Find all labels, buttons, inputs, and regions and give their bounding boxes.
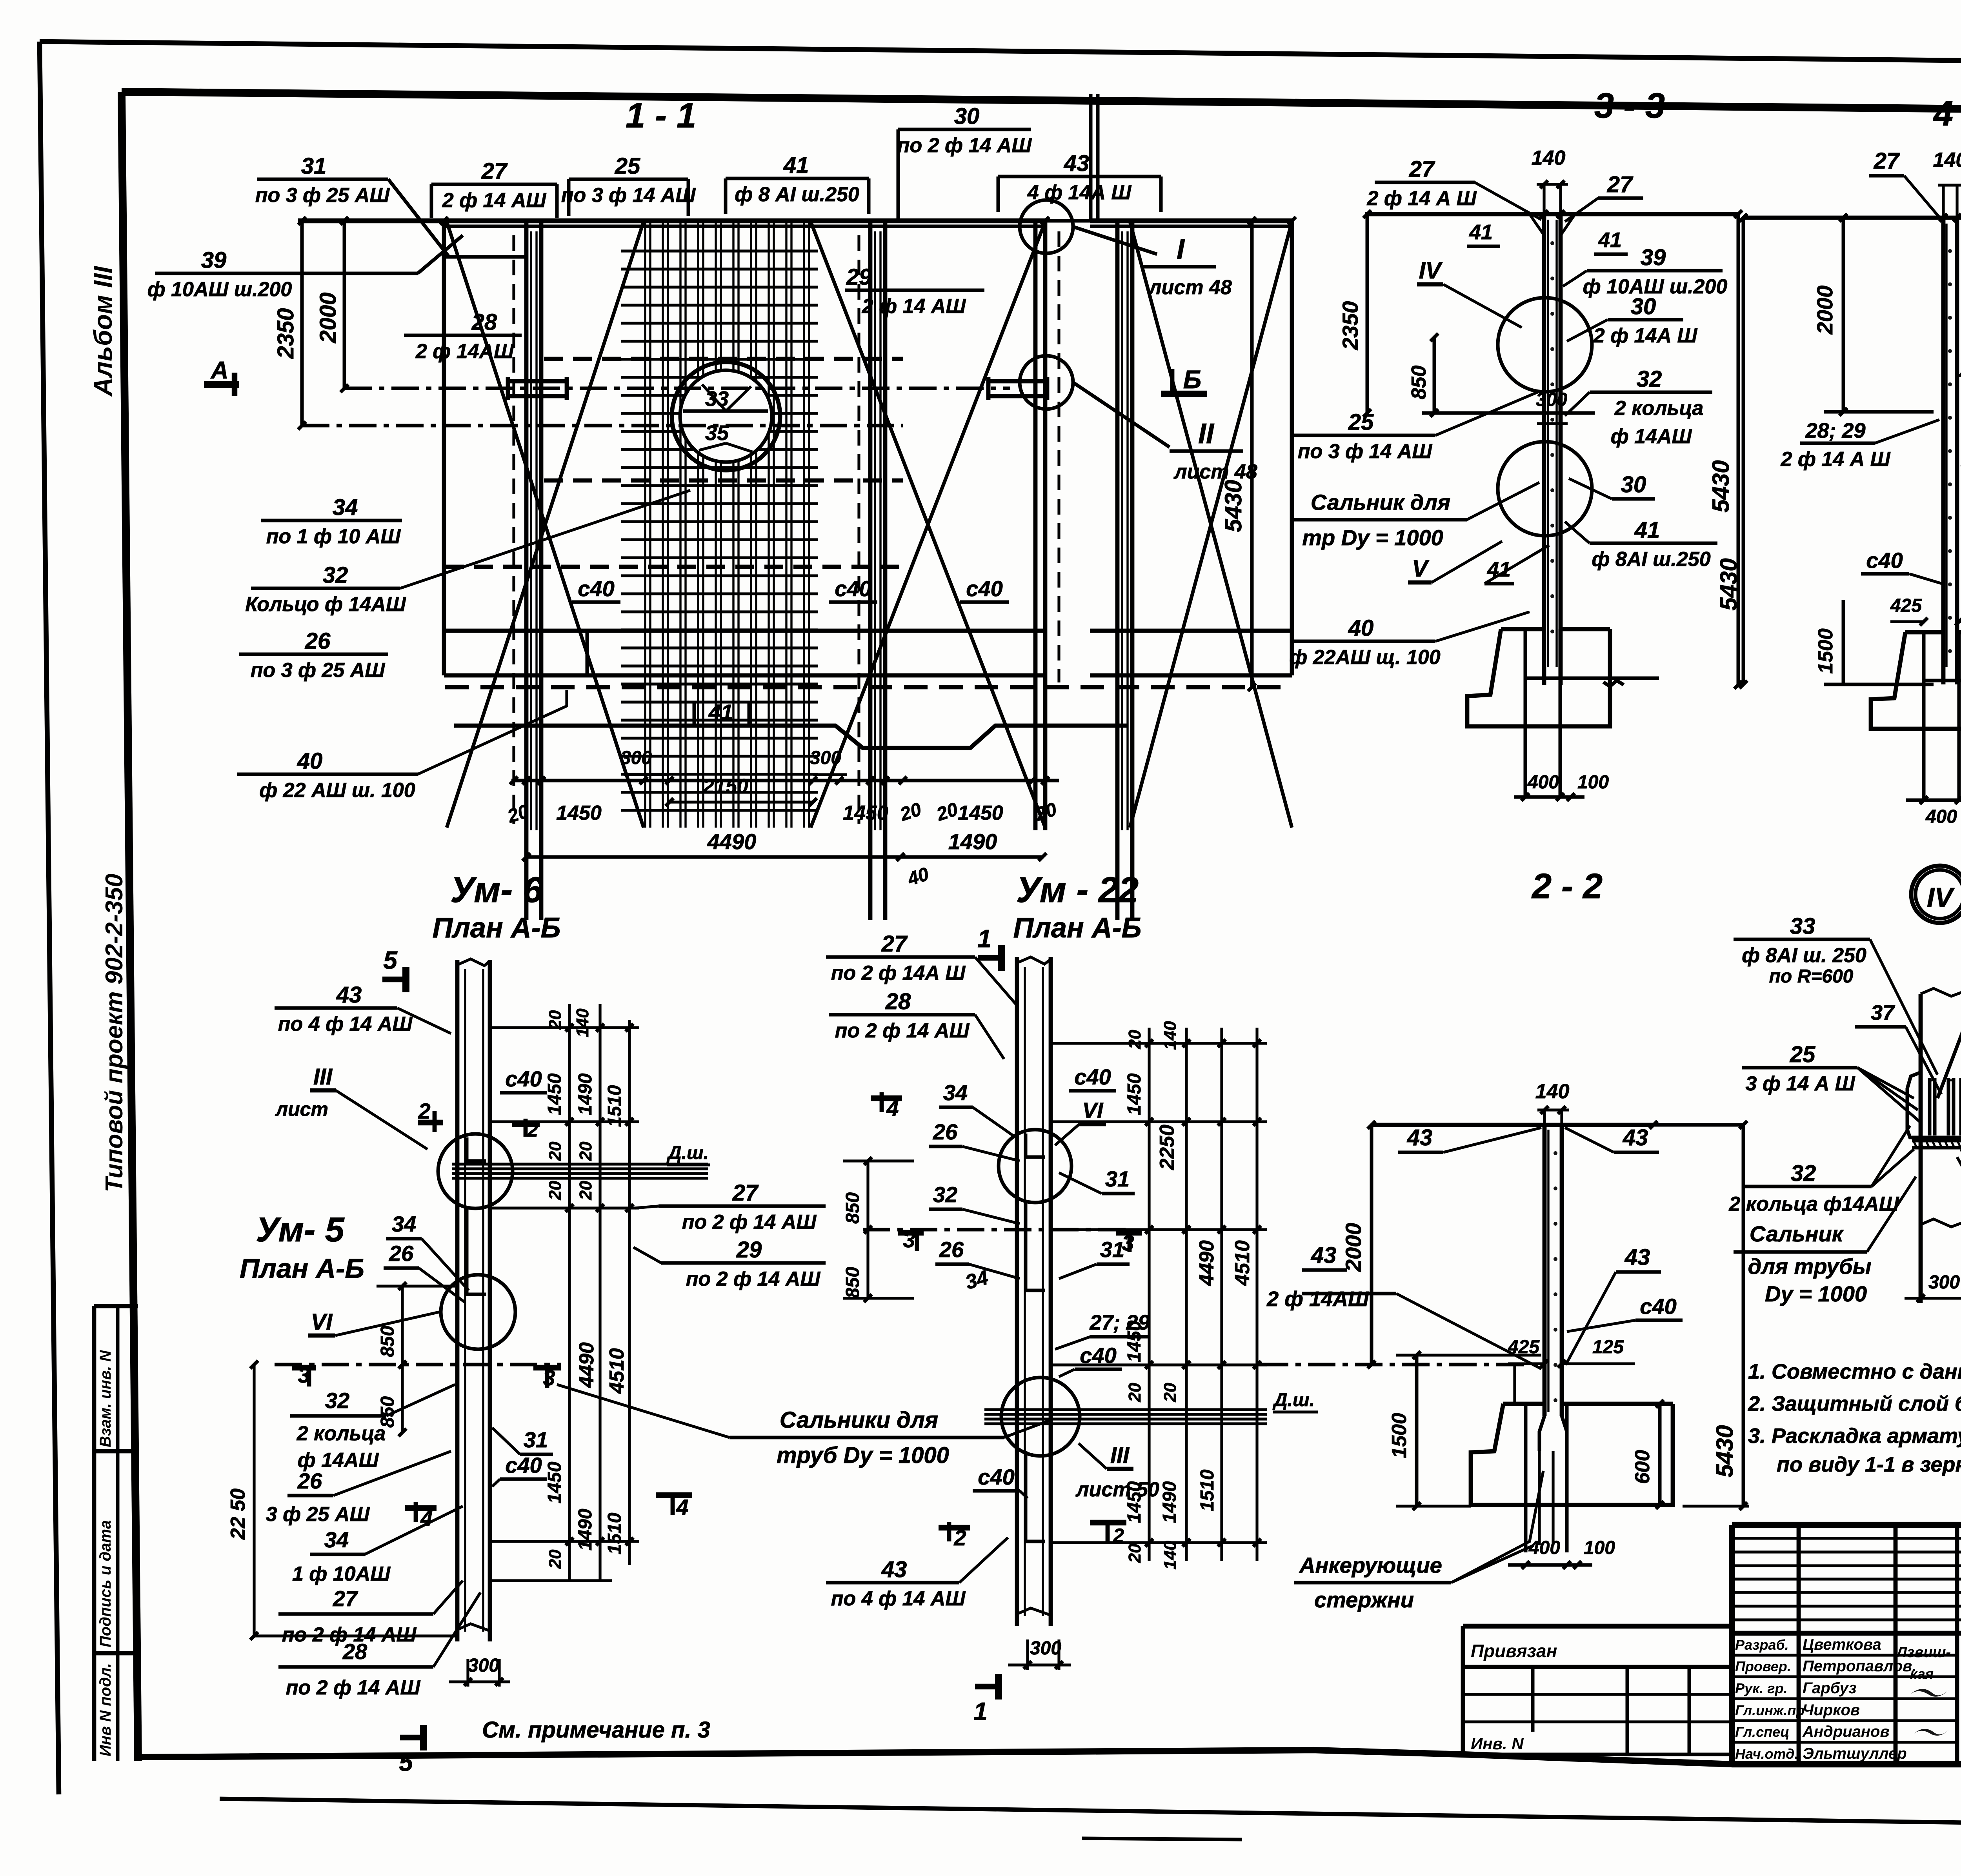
- svg-text:20: 20: [576, 1181, 595, 1200]
- svg-text:Гл.спец: Гл.спец: [1735, 1724, 1789, 1740]
- svg-text:Альбом III: Альбом III: [88, 266, 117, 397]
- svg-text:26: 26: [305, 628, 331, 654]
- svg-text:Ум- 5: Ум- 5: [256, 1210, 344, 1249]
- svg-text:34: 34: [943, 1080, 968, 1105]
- svg-text:27: 27: [333, 1586, 358, 1611]
- outer border frame: [40, 42, 1961, 66]
- svg-text:2 ф 14А Ш: 2 ф 14А Ш: [1593, 324, 1698, 347]
- svg-text:40: 40: [1348, 615, 1374, 641]
- svg-text:28: 28: [342, 1639, 367, 1664]
- svg-text:1 - 1: 1 - 1: [626, 96, 696, 135]
- svg-text:с40: с40: [1866, 548, 1903, 573]
- svg-text:Сальник: Сальник: [1750, 1221, 1844, 1246]
- svg-text:5: 5: [399, 1748, 413, 1776]
- svg-text:35: 35: [705, 421, 729, 445]
- svg-text:III: III: [1110, 1443, 1130, 1468]
- svg-text:1: 1: [973, 1697, 988, 1725]
- svg-text:39: 39: [1641, 245, 1666, 270]
- title block (stamp): [1732, 1522, 1961, 1528]
- inner drawing frame: [122, 92, 1961, 114]
- svg-text:5430: 5430: [1708, 460, 1734, 512]
- svg-text:43: 43: [1311, 1243, 1337, 1268]
- svg-text:3 - 3: 3 - 3: [1594, 86, 1665, 126]
- svg-text:по 3 ф 14 АШ: по 3 ф 14 АШ: [1298, 440, 1433, 463]
- svg-text:20: 20: [546, 1549, 565, 1569]
- svg-text:5430: 5430: [1715, 558, 1742, 610]
- svg-text:39: 39: [201, 247, 227, 273]
- svg-text:20: 20: [546, 1181, 565, 1200]
- svg-text:850: 850: [842, 1267, 863, 1298]
- svg-text:30: 30: [954, 104, 980, 129]
- svg-text:2: 2: [1113, 1525, 1124, 1547]
- svg-text:с40: с40: [966, 576, 1002, 601]
- svg-text:850: 850: [377, 1326, 398, 1357]
- svg-text:43: 43: [1407, 1125, 1433, 1150]
- svg-text:1. Совместно с данным см.: 1. Совместно с данным см. п.п. КЖ-38, 39…: [1748, 1360, 1961, 1383]
- svg-text:III: III: [313, 1064, 333, 1090]
- svg-text:34: 34: [333, 495, 358, 520]
- svg-text:1500: 1500: [1388, 1413, 1411, 1458]
- svg-text:по 2 ф 14 АШ: по 2 ф 14 АШ: [835, 1019, 970, 1042]
- svg-text:Разраб.: Разраб.: [1735, 1637, 1789, 1653]
- svg-text:100: 100: [1577, 772, 1609, 793]
- svg-text:лист 48: лист 48: [1148, 276, 1232, 299]
- svg-text:по 2 ф 14А Ш: по 2 ф 14А Ш: [831, 962, 966, 984]
- svg-text:Д.ш.: Д.ш.: [666, 1143, 709, 1163]
- svg-text:с40: с40: [1074, 1064, 1111, 1089]
- svg-text:2 ф 14 А Ш: 2 ф 14 А Ш: [1780, 448, 1890, 471]
- svg-text:1450: 1450: [843, 802, 888, 824]
- svg-text:по R=600: по R=600: [1769, 966, 1854, 987]
- svg-text:2 ф 14 АШ: 2 ф 14 АШ: [442, 189, 547, 212]
- svg-text:ф 22АШ щ. 100: ф 22АШ щ. 100: [1289, 646, 1441, 669]
- svg-text:1450: 1450: [958, 802, 1003, 824]
- svg-text:5430: 5430: [1712, 1425, 1738, 1477]
- svg-text:См. примечание п. 3: См. примечание п. 3: [482, 1717, 710, 1743]
- svg-text:труб Dy = 1000: труб Dy = 1000: [777, 1443, 949, 1468]
- svg-text:с40: с40: [1080, 1343, 1116, 1368]
- svg-text:4490: 4490: [575, 1342, 598, 1388]
- svg-text:4: 4: [886, 1096, 899, 1121]
- svg-text:27: 27: [881, 931, 908, 957]
- svg-text:27: 27: [481, 158, 508, 184]
- svg-text:31: 31: [524, 1427, 548, 1452]
- svg-text:40: 40: [297, 748, 323, 774]
- svg-text:ф 22 АШ ш. 100: ф 22 АШ ш. 100: [259, 779, 415, 802]
- svg-text:2 ф 14АШ: 2 ф 14АШ: [1266, 1287, 1369, 1311]
- svg-text:26: 26: [939, 1237, 964, 1262]
- svg-text:140: 140: [1535, 1080, 1570, 1103]
- svg-text:ф 8АI ш.250: ф 8АI ш.250: [1592, 548, 1710, 571]
- svg-text:по виду 1-1 в зеркальном и: по виду 1-1 в зеркальном изображении.: [1777, 1453, 1961, 1476]
- svg-text:20: 20: [1125, 1030, 1144, 1049]
- svg-text:1490: 1490: [575, 1073, 596, 1115]
- svg-text:по 2 ф 14 АШ: по 2 ф 14 АШ: [682, 1211, 817, 1234]
- svg-text:28: 28: [885, 989, 911, 1014]
- svg-text:2 ф 14 А Ш: 2 ф 14 А Ш: [1366, 187, 1477, 210]
- svg-text:I: I: [1177, 234, 1185, 265]
- svg-text:27: 27: [1409, 156, 1435, 182]
- svg-text:1500: 1500: [1814, 628, 1837, 674]
- svg-text:300: 300: [620, 748, 652, 768]
- svg-text:А: А: [210, 357, 229, 384]
- svg-text:2 ф 14 АШ: 2 ф 14 АШ: [862, 295, 966, 318]
- svg-text:Анкерующие: Анкерующие: [1299, 1553, 1442, 1578]
- sidebar table (Vzam/Podpis/Inv): [92, 1306, 96, 1761]
- svg-text:2: 2: [953, 1525, 966, 1550]
- plan Um-6 / Um-5: [455, 960, 460, 1641]
- svg-text:41: 41: [1634, 517, 1660, 543]
- svg-text:Инв. N: Инв. N: [1471, 1734, 1524, 1753]
- svg-text:3 ф 25 АШ: 3 ф 25 АШ: [266, 1503, 370, 1526]
- svg-text:Взам. инв. N: Взам. инв. N: [97, 1350, 114, 1447]
- svg-text:27: 27: [1607, 172, 1634, 197]
- svg-text:32: 32: [1791, 1161, 1816, 1186]
- svg-text:26: 26: [389, 1241, 414, 1266]
- svg-text:3 ф 14 А Ш: 3 ф 14 А Ш: [1745, 1072, 1855, 1095]
- svg-text:1510: 1510: [604, 1512, 625, 1554]
- svg-text:План А-Б: План А-Б: [432, 912, 560, 944]
- svg-text:2 кольца: 2 кольца: [297, 1422, 386, 1445]
- svg-text:32: 32: [323, 562, 348, 588]
- svg-text:34: 34: [392, 1212, 416, 1236]
- detail IV: [1911, 866, 1961, 923]
- svg-text:140: 140: [1161, 1021, 1180, 1050]
- svg-text:1490: 1490: [948, 829, 997, 854]
- svg-text:30: 30: [1631, 294, 1656, 319]
- svg-text:II: II: [1198, 418, 1215, 449]
- svg-text:29: 29: [736, 1237, 762, 1263]
- svg-text:34: 34: [324, 1527, 349, 1552]
- svg-text:по 2 ф 14 АШ: по 2 ф 14 АШ: [686, 1268, 821, 1290]
- svg-text:кая: кая: [1910, 1666, 1934, 1682]
- svg-text:4490: 4490: [707, 829, 757, 854]
- svg-text:600: 600: [1631, 1450, 1654, 1484]
- svg-text:2250: 2250: [1156, 1125, 1179, 1170]
- svg-text:Привязан: Привязан: [1471, 1641, 1557, 1661]
- plan Um-7 / Um-22: [1015, 957, 1019, 1626]
- svg-text:ф 14АШ: ф 14АШ: [1611, 425, 1692, 448]
- svg-text:по 4 ф 14 АШ: по 4 ф 14 АШ: [831, 1587, 966, 1610]
- svg-text:тр Dy = 1000: тр Dy = 1000: [1302, 525, 1443, 550]
- svg-text:с40: с40: [578, 576, 614, 601]
- svg-text:ф 10АШ ш.200: ф 10АШ ш.200: [147, 278, 292, 301]
- svg-text:100: 100: [1584, 1538, 1615, 1558]
- svg-text:2000: 2000: [1341, 1223, 1366, 1272]
- svg-text:27: 27: [732, 1180, 759, 1206]
- svg-text:Подпись и дата: Подпись и дата: [97, 1520, 114, 1647]
- svg-text:IV: IV: [1419, 257, 1443, 284]
- svg-text:по 1 ф 10 АШ: по 1 ф 10 АШ: [266, 525, 401, 548]
- svg-text:по 2 ф 14 АШ: по 2 ф 14 АШ: [286, 1676, 421, 1699]
- svg-text:2000: 2000: [1812, 286, 1837, 335]
- svg-text:Эльтшуллер: Эльтшуллер: [1803, 1745, 1907, 1762]
- svg-text:Типовой проект 902-2-350: Типовой проект 902-2-350: [101, 873, 128, 1192]
- svg-text:300: 300: [1030, 1638, 1061, 1659]
- svg-text:с40: с40: [505, 1066, 542, 1091]
- svg-text:1450: 1450: [544, 1461, 565, 1503]
- svg-text:лист 48: лист 48: [1173, 460, 1257, 483]
- svg-text:1510: 1510: [1197, 1469, 1218, 1511]
- svg-text:Кольцо ф 14АШ: Кольцо ф 14АШ: [245, 593, 406, 616]
- svg-text:400: 400: [1527, 772, 1559, 793]
- svg-text:Ум- 6: Ум- 6: [450, 870, 543, 910]
- svg-text:20: 20: [1161, 1383, 1180, 1402]
- svg-text:37: 37: [1871, 1001, 1896, 1024]
- svg-text:400: 400: [1925, 806, 1957, 827]
- svg-text:Андрианов: Андрианов: [1802, 1723, 1890, 1740]
- svg-text:ф 8АI ш. 250: ф 8АI ш. 250: [1742, 944, 1866, 967]
- svg-text:2 ф 14АШ: 2 ф 14АШ: [415, 340, 514, 363]
- svg-text:25: 25: [1348, 409, 1374, 435]
- svg-text:425: 425: [1890, 595, 1922, 616]
- svg-text:VI: VI: [1082, 1098, 1104, 1123]
- svg-text:33: 33: [705, 387, 729, 411]
- svg-text:300: 300: [468, 1655, 499, 1676]
- svg-text:300: 300: [1928, 1272, 1960, 1293]
- svg-text:по 4 ф 14 АШ: по 4 ф 14 АШ: [278, 1013, 413, 1035]
- svg-text:Провер.: Провер.: [1735, 1658, 1791, 1674]
- svg-text:Чирков: Чирков: [1803, 1701, 1860, 1719]
- svg-text:2 кольца ф14АШ: 2 кольца ф14АШ: [1728, 1193, 1899, 1215]
- svg-text:Ум - 22: Ум - 22: [1016, 870, 1139, 910]
- svg-text:20: 20: [576, 1141, 595, 1161]
- svg-text:300: 300: [810, 748, 841, 768]
- svg-text:33: 33: [1790, 913, 1815, 939]
- svg-text:43: 43: [1064, 151, 1090, 176]
- svg-text:с40: с40: [835, 576, 871, 601]
- svg-text:2000: 2000: [315, 292, 341, 343]
- svg-text:1450: 1450: [544, 1073, 565, 1115]
- svg-text:31: 31: [1105, 1166, 1130, 1191]
- svg-text:Рук. гр.: Рук. гр.: [1735, 1680, 1788, 1696]
- svg-text:2 - 2: 2 - 2: [1531, 867, 1603, 906]
- svg-text:по 3 ф 25 АШ: по 3 ф 25 АШ: [251, 659, 386, 682]
- svg-text:41: 41: [1598, 228, 1622, 252]
- svg-text:43: 43: [881, 1557, 907, 1582]
- svg-text:4510: 4510: [1231, 1240, 1254, 1286]
- svg-text:25: 25: [1790, 1042, 1815, 1067]
- svg-text:с40: с40: [505, 1453, 542, 1478]
- svg-text:20: 20: [546, 1141, 565, 1161]
- svg-text:41: 41: [1469, 220, 1493, 244]
- svg-text:400: 400: [1528, 1538, 1560, 1558]
- svg-text:4: 4: [676, 1495, 688, 1519]
- svg-text:2350: 2350: [273, 308, 298, 359]
- svg-text:2 кольца: 2 кольца: [1614, 397, 1704, 420]
- svg-text:31: 31: [301, 153, 327, 179]
- svg-text:2350: 2350: [1338, 301, 1363, 351]
- svg-text:5430: 5430: [1220, 480, 1246, 532]
- svg-text:140: 140: [1161, 1541, 1180, 1570]
- svg-text:32: 32: [1637, 366, 1662, 392]
- svg-text:1490: 1490: [575, 1508, 596, 1550]
- svg-text:22 50: 22 50: [227, 1488, 249, 1540]
- svg-text:Dy = 1000: Dy = 1000: [1765, 1281, 1867, 1306]
- svg-text:41: 41: [708, 700, 733, 724]
- svg-text:2: 2: [418, 1099, 430, 1123]
- svg-text:V: V: [1412, 555, 1430, 582]
- svg-text:План А-Б: План А-Б: [1013, 912, 1141, 944]
- svg-text:по 2 ф 14 АШ: по 2 ф 14 АШ: [897, 134, 1032, 157]
- svg-text:32: 32: [325, 1388, 349, 1413]
- svg-text:ф 8 АI ш.250: ф 8 АI ш.250: [735, 183, 859, 206]
- svg-text:125: 125: [1592, 1337, 1624, 1357]
- svg-text:Д.ш.: Д.ш.: [1272, 1390, 1315, 1410]
- svg-text:для трубы: для трубы: [1748, 1254, 1872, 1279]
- svg-text:27; 29: 27; 29: [1089, 1311, 1150, 1334]
- svg-text:Нач.отд.: Нач.отд.: [1735, 1746, 1798, 1762]
- svg-text:1510: 1510: [604, 1085, 625, 1127]
- svg-text:1: 1: [977, 924, 991, 953]
- svg-text:20: 20: [1125, 1383, 1144, 1402]
- svg-text:IV: IV: [1927, 882, 1955, 913]
- svg-text:4510: 4510: [606, 1348, 628, 1394]
- svg-text:VI: VI: [311, 1309, 333, 1335]
- svg-text:140: 140: [573, 1008, 592, 1037]
- svg-text:с40: с40: [1640, 1294, 1676, 1319]
- svg-text:4 - 4: 4 - 4: [1933, 94, 1961, 133]
- svg-text:26: 26: [933, 1119, 958, 1144]
- svg-text:41: 41: [783, 153, 809, 178]
- svg-text:Гарбуз: Гарбуз: [1803, 1679, 1857, 1697]
- svg-text:29: 29: [846, 264, 872, 290]
- svg-text:Б: Б: [1183, 365, 1202, 394]
- svg-text:1450: 1450: [556, 802, 602, 824]
- privyazan table: [1463, 1624, 1732, 1629]
- svg-text:2150: 2150: [702, 775, 748, 798]
- svg-text:Цветкова: Цветкова: [1803, 1636, 1881, 1653]
- svg-text:140: 140: [1532, 147, 1566, 169]
- svg-text:Лзвиш-: Лзвиш-: [1896, 1644, 1951, 1661]
- svg-text:Сальники для: Сальники для: [780, 1407, 938, 1433]
- svg-text:стержни: стержни: [1314, 1587, 1414, 1612]
- svg-text:25: 25: [615, 153, 640, 179]
- svg-text:28: 28: [471, 309, 497, 335]
- svg-text:20: 20: [1125, 1543, 1144, 1563]
- svg-text:Инв N подл.: Инв N подл.: [97, 1663, 114, 1756]
- svg-text:лист 50: лист 50: [1075, 1478, 1159, 1501]
- svg-text:43: 43: [1623, 1125, 1648, 1150]
- svg-text:Сальник для: Сальник для: [1311, 490, 1450, 515]
- svg-text:3. Раскладка арматуры по вид: 3. Раскладка арматуры по виду 5-6 произв…: [1748, 1424, 1961, 1448]
- svg-text:32: 32: [933, 1182, 957, 1207]
- svg-text:5: 5: [383, 946, 398, 974]
- svg-text:28; 29: 28; 29: [1805, 419, 1865, 442]
- svg-text:4490: 4490: [1195, 1240, 1218, 1286]
- svg-text:1450: 1450: [1124, 1073, 1145, 1115]
- svg-text:27: 27: [1874, 148, 1900, 174]
- svg-text:План А-Б: План А-Б: [240, 1253, 364, 1284]
- svg-text:1490: 1490: [1159, 1481, 1180, 1523]
- svg-text:по 3 ф 14 АШ: по 3 ф 14 АШ: [561, 184, 696, 207]
- svg-text:Гл.инж.пр: Гл.инж.пр: [1735, 1702, 1805, 1718]
- svg-text:30: 30: [1621, 472, 1646, 497]
- svg-text:26: 26: [297, 1468, 322, 1493]
- svg-text:43: 43: [1624, 1245, 1650, 1270]
- svg-text:с40: с40: [978, 1465, 1014, 1489]
- svg-text:лист: лист: [275, 1098, 328, 1120]
- svg-text:31: 31: [1100, 1237, 1124, 1262]
- svg-text:по 3 ф 25 АШ: по 3 ф 25 АШ: [255, 184, 390, 207]
- svg-text:140: 140: [1933, 149, 1961, 171]
- svg-text:1 ф 10АШ: 1 ф 10АШ: [292, 1563, 391, 1585]
- svg-text:850: 850: [1408, 366, 1430, 400]
- svg-text:2. Защитный слой бетона - 20: 2. Защитный слой бетона - 20 мм.: [1748, 1392, 1961, 1416]
- svg-text:43: 43: [336, 982, 362, 1008]
- svg-text:2: 2: [527, 1119, 538, 1141]
- svg-text:20: 20: [546, 1010, 565, 1030]
- svg-text:850: 850: [842, 1192, 863, 1224]
